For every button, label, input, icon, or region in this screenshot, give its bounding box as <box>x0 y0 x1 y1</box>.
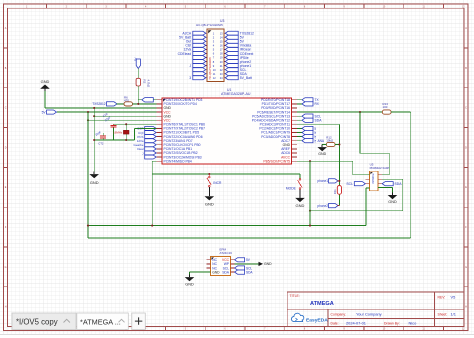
UI tab ATMEGA active <box>77 313 129 330</box>
wire 5V to VCC row4 <box>57 111 157 113</box>
svg-text:REV:: REV: <box>438 295 446 299</box>
wire bus y238 <box>88 237 411 239</box>
U3 pin 21 left flag <box>204 73 207 75</box>
wire bus y225 <box>88 225 366 227</box>
wire RESET net <box>297 111 382 113</box>
junction VCC bus <box>87 111 89 113</box>
wire MODE GND <box>299 189 301 195</box>
U3 pin 1 left flag <box>204 32 207 34</box>
svg-text:Sheet:: Sheet: <box>438 313 448 317</box>
connector U3 body <box>207 29 224 82</box>
wire RESET to U5 <box>359 112 361 153</box>
U3 pin 11 left flag <box>204 52 207 54</box>
node flag U1 left row 15 <box>145 155 157 159</box>
svg-text:G: G <box>465 266 467 269</box>
U3 pin 14 right flag <box>224 57 227 59</box>
node flag SDA <box>297 119 302 121</box>
node flag SDA U2 <box>235 270 245 274</box>
node flag TX <box>297 99 302 101</box>
node flag ANA1 <box>297 132 302 134</box>
svg-text:TXS2812: TXS2812 <box>92 102 106 106</box>
wire XTAL1 <box>114 123 157 125</box>
svg-text:C: C <box>5 107 7 110</box>
svg-text:ANA: ANA <box>318 139 325 143</box>
wire bus x88 <box>87 112 89 238</box>
svg-text:2024-07-01: 2024-07-01 <box>346 321 366 326</box>
ground GND crystal <box>93 172 95 175</box>
svg-text:3: 3 <box>189 76 191 80</box>
svg-text:GND: GND <box>296 203 305 208</box>
node flag U1 left row 14 <box>145 151 157 155</box>
U3 pin 12 right flag <box>224 52 227 54</box>
ground GND U2 left <box>189 275 191 278</box>
svg-text:J: J <box>189 64 191 68</box>
EasyEDA logo <box>291 313 303 321</box>
svg-text:Drawn By:: Drawn By: <box>384 321 400 325</box>
UI tab IOV5 copy <box>12 313 76 330</box>
node flag U1 left row 13 <box>145 147 157 151</box>
title block frame <box>287 292 464 326</box>
U3 pin1 marker <box>208 30 211 33</box>
IC U5 body <box>370 171 378 191</box>
U3 pin 7 left flag <box>204 44 207 46</box>
wire R12 right <box>335 144 339 146</box>
svg-text:GND: GND <box>41 79 50 84</box>
node flag ANA3 <box>297 140 302 142</box>
svg-text:PB5/SCK/PCINT5: PB5/SCK/PCINT5 <box>263 159 290 163</box>
svg-text:phone1: phone1 <box>317 179 328 183</box>
wire INCR/MODE net <box>152 173 300 175</box>
svg-text:ATMEGA328P-AU: ATMEGA328P-AU <box>221 92 251 96</box>
U3 pin 22 right flag <box>224 73 227 75</box>
ground GND U5 <box>392 192 394 195</box>
svg-text:H: H <box>5 306 7 309</box>
U3 pin 10 right flag <box>224 48 227 50</box>
wire U2 GND left <box>190 271 211 273</box>
svg-text:GND: GND <box>185 282 194 286</box>
svg-text:D: D <box>465 146 467 149</box>
svg-text:G: G <box>5 266 7 269</box>
wire U5 bottom-left <box>366 187 370 189</box>
svg-text:R11: R11 <box>333 189 337 194</box>
U3 pin 16 right flag <box>224 61 227 63</box>
svg-text:Company:: Company: <box>331 313 347 317</box>
U3 pin 3 left flag <box>204 36 207 38</box>
svg-text:H: H <box>465 306 467 309</box>
node flag SCL <box>297 115 302 117</box>
svg-text:V5: V5 <box>451 295 456 300</box>
svg-text:phone2: phone2 <box>317 204 328 208</box>
wire bus y210 <box>310 210 403 212</box>
U5 pins <box>366 174 370 176</box>
svg-text:TITLE:: TITLE: <box>290 294 300 298</box>
wire R13 to bus <box>391 111 411 113</box>
ground GND right-arrow U2 <box>259 262 264 266</box>
U3 pin 23 left flag <box>204 77 207 79</box>
svg-text:GND: GND <box>264 262 272 266</box>
junction INCR <box>208 173 210 175</box>
switch MODE <box>299 174 301 179</box>
IC U2 AT24C16 body <box>211 257 231 276</box>
svg-text:Your Company: Your Company <box>356 312 382 317</box>
svg-text:4.7kΩ: 4.7kΩ <box>146 80 150 88</box>
svg-text:HC-QB-2*12AWA05: HC-QB-2*12AWA05 <box>209 57 212 80</box>
ground GND MODE <box>299 195 301 198</box>
U3 pin 15 left flag <box>204 61 207 63</box>
node flag ANA0 <box>297 127 302 129</box>
node flag SCL U2 <box>235 266 245 270</box>
U3 pin 6 right flag <box>224 40 227 42</box>
svg-text:SDA: SDA <box>246 270 253 274</box>
wire phone2 stub <box>338 205 340 207</box>
node flag U1 left row 11 <box>145 139 157 143</box>
wire U5 GND <box>378 187 393 189</box>
junction R2/PD4 <box>137 103 139 105</box>
U3 pin 24 right flag <box>224 77 227 79</box>
svg-text:5V_Batt: 5V_Batt <box>240 76 252 80</box>
wire VCC row6 <box>88 119 157 121</box>
wire 5V to R2 <box>137 69 139 79</box>
svg-text:MODE: MODE <box>286 186 297 190</box>
U3 pin 20 right flag <box>224 69 227 71</box>
wire R12 left <box>322 144 326 146</box>
svg-text:SDA: SDA <box>222 270 230 274</box>
svg-text:GND: GND <box>205 201 214 206</box>
U3 pin 4 right flag <box>224 36 227 38</box>
svg-text:GND: GND <box>212 270 220 274</box>
svg-text:R2: R2 <box>143 80 147 84</box>
node flag ANA2 <box>297 136 302 138</box>
U3 pin 13 left flag <box>204 57 207 59</box>
node flag U1 left row 8 <box>145 126 157 130</box>
ground GND R12 <box>321 145 323 148</box>
U3 pin 19 left flag <box>204 69 207 71</box>
U2 pins and names <box>207 259 211 261</box>
wire INCR GND <box>208 187 210 194</box>
svg-text:GND: GND <box>90 180 99 185</box>
svg-text:ATMEGA: ATMEGA <box>310 301 334 307</box>
U3 pin 18 right flag <box>224 65 227 67</box>
svg-text:CDElead: CDElead <box>178 52 192 56</box>
svg-text:SCL: SCL <box>346 182 353 186</box>
resistor R2 4.7k <box>136 78 140 86</box>
U3 pin 8 right flag <box>224 44 227 46</box>
node flag SDA U5 <box>382 182 393 186</box>
wire bus x94 <box>93 108 95 172</box>
power flag 5V U2 <box>235 258 245 262</box>
crystal Y1 16MHz <box>125 124 127 140</box>
svg-text:SDA: SDA <box>315 119 323 123</box>
svg-text:Nico: Nico <box>409 321 417 326</box>
svg-text:C: C <box>465 107 467 110</box>
node flag RX <box>297 103 302 105</box>
svg-text:1/1: 1/1 <box>451 312 456 317</box>
wire GND down and to U1 row3 <box>44 91 46 108</box>
U3 pin 5 left flag <box>204 40 207 42</box>
U1 pins <box>157 99 163 101</box>
frame zone ticks <box>46 4 48 8</box>
junction RESET <box>359 111 361 113</box>
wire U5 pin2 right <box>382 178 403 180</box>
node flag U1 left row 10 <box>145 135 157 139</box>
U3 pin 2 right flag <box>224 32 227 34</box>
svg-text:GND: GND <box>318 152 326 156</box>
svg-text:16MHz: 16MHz <box>113 130 123 134</box>
wire GND row5 <box>94 115 156 117</box>
wire WP to GND <box>235 263 259 265</box>
svg-text:EasyEDA: EasyEDA <box>306 318 328 324</box>
svg-text:Date:: Date: <box>331 321 339 325</box>
svg-text:INCR: INCR <box>213 181 222 185</box>
wire SCK to U5 pin1 <box>297 160 310 162</box>
U3 pin 9 left flag <box>204 48 207 50</box>
wire R2 down <box>137 86 139 104</box>
ground GND INCR <box>208 194 210 197</box>
wire TXS2812 to R6 <box>117 103 125 105</box>
svg-text:HC-QB-2*12AWA05: HC-QB-2*12AWA05 <box>196 23 223 27</box>
wire phone1 stub <box>338 180 340 182</box>
UI button add-tab <box>132 313 146 330</box>
node flag U1 left row 12 <box>145 143 157 147</box>
svg-text:PCINT4/MISO PB4: PCINT4/MISO PB4 <box>164 159 192 163</box>
svg-text:PD284AV-S14P: PD284AV-S14P <box>370 166 390 170</box>
switch INCR <box>208 174 210 176</box>
node flag U1 left row 9 <box>145 131 157 135</box>
svg-text:D: D <box>5 146 7 149</box>
svg-text:SDA: SDA <box>395 182 403 186</box>
U3 pin 17 left flag <box>204 65 207 67</box>
svg-text:*ATMEGA ...: *ATMEGA ... <box>80 317 121 326</box>
svg-text:AT24C16: AT24C16 <box>220 251 233 255</box>
wire ADC3 net <box>297 123 339 125</box>
IC U1 ATMEGA328P-AU body <box>162 98 292 164</box>
svg-text:PD284AV: PD284AV <box>371 174 374 185</box>
wire riser x310 <box>309 161 311 225</box>
svg-text:GND: GND <box>388 200 397 204</box>
wire riser PB4 <box>152 160 156 162</box>
wire R6 to U1 PD4 <box>133 103 157 105</box>
svg-text:100: 100 <box>383 105 388 109</box>
svg-text:*I/OV5 copy: *I/OV5 copy <box>16 318 58 327</box>
node flag U1 pin1 <box>138 99 142 101</box>
svg-text:CT2: CT2 <box>98 142 104 146</box>
wire XTAL2 <box>94 139 134 141</box>
